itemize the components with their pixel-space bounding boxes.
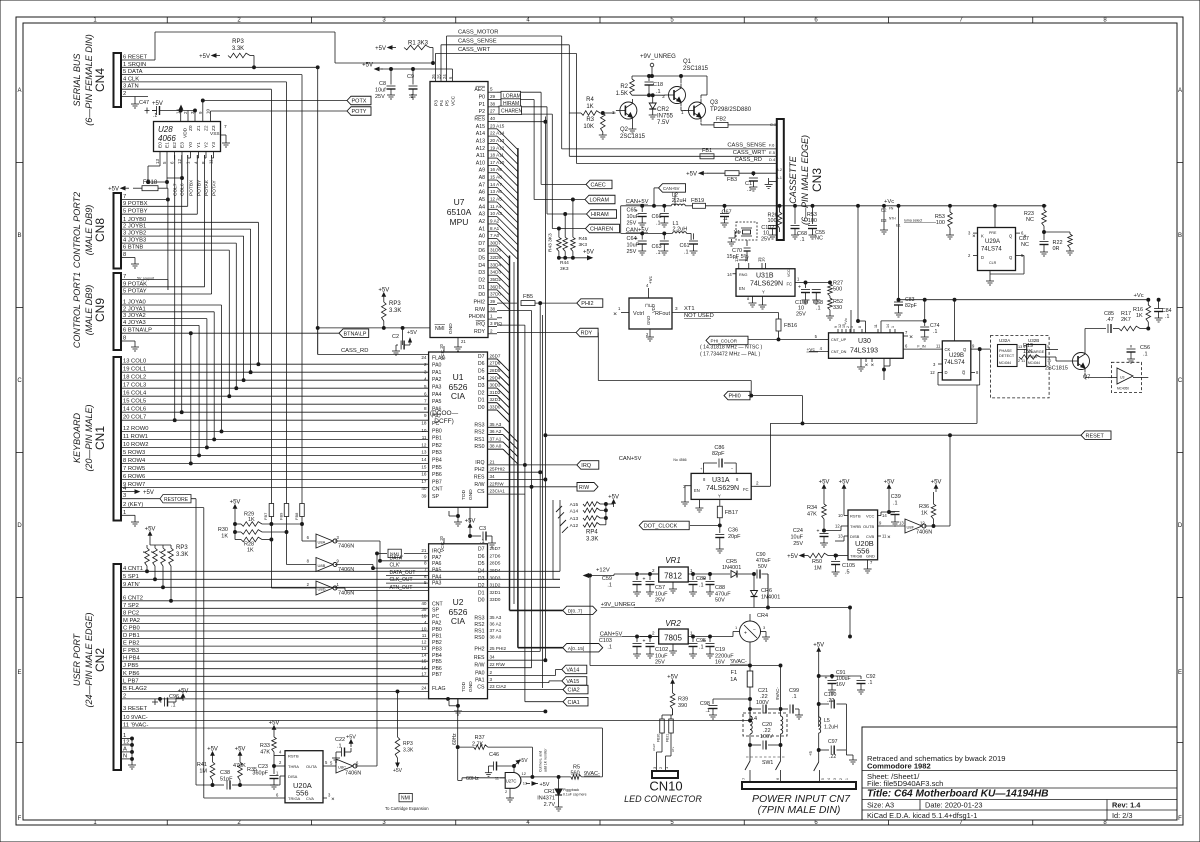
svg-text:FB3: FB3 xyxy=(727,177,737,183)
stair RP4 A15-A12 xyxy=(556,495,619,543)
svg-text:12: 12 xyxy=(744,257,749,262)
capacitor C102 xyxy=(643,637,669,666)
svg-text:1.5K: 1.5K xyxy=(616,91,628,97)
svg-text:5: 5 xyxy=(821,778,825,780)
capacitor C38 51pF xyxy=(213,770,242,790)
svg-text:CIA: CIA xyxy=(451,616,466,626)
svg-text:A8: A8 xyxy=(479,175,485,181)
svg-text:P4: P4 xyxy=(439,100,445,106)
svg-text:10uf: 10uf xyxy=(375,88,386,94)
resistors RP3 3.3K pullup pack xyxy=(142,527,189,603)
svg-text:CR1: CR1 xyxy=(544,789,555,795)
svg-text:31D2: 31D2 xyxy=(490,583,501,588)
svg-text:PB3: PB3 xyxy=(432,450,442,456)
svg-text:CNT: CNT xyxy=(432,602,443,608)
svg-text:UNLIT: UNLIT xyxy=(652,743,656,751)
svg-text:NC: NC xyxy=(815,236,823,242)
svg-text:47K: 47K xyxy=(807,512,817,518)
svg-text:8: 8 xyxy=(424,406,427,411)
svg-text:E0: E0 xyxy=(158,142,164,148)
svg-text:add 1K resistor: add 1K resistor xyxy=(544,748,548,772)
wire base Q1 xyxy=(632,94,665,97)
svg-text:U29A: U29A xyxy=(985,239,1000,245)
svg-text:A[0..15]: A[0..15] xyxy=(568,646,585,652)
svg-text:Vctrl: Vctrl xyxy=(633,311,644,317)
svg-text:C57: C57 xyxy=(655,585,665,591)
svg-text:U1: U1 xyxy=(453,372,464,382)
svg-text:6510A: 6510A xyxy=(447,207,472,217)
svg-text:23CIA1: 23CIA1 xyxy=(490,489,506,494)
svg-text:1K: 1K xyxy=(586,104,593,110)
svg-text:+5V: +5V xyxy=(378,288,389,294)
svg-text:2: 2 xyxy=(652,631,655,636)
svg-text:560: 560 xyxy=(571,771,580,777)
text user port xyxy=(72,612,107,707)
svg-text:CNT_UP: CNT_UP xyxy=(831,338,847,342)
svg-text:+5V: +5V xyxy=(362,63,373,69)
svg-text:23 A15: 23 A15 xyxy=(490,123,505,128)
svg-text:RP3: RP3 xyxy=(232,39,244,45)
svg-text:E: E xyxy=(17,670,21,676)
svg-text:PB2: PB2 xyxy=(432,640,442,646)
svg-text:C18: C18 xyxy=(653,82,663,88)
svg-text:A7: A7 xyxy=(479,182,485,188)
svg-text:CVA: CVA xyxy=(306,796,314,801)
video out R16 C84 xyxy=(1133,300,1151,330)
svg-text:VSS: VSS xyxy=(210,131,220,137)
svg-text:FB20: FB20 xyxy=(657,734,661,742)
svg-text:2: 2 xyxy=(490,328,493,333)
wires FB downs xyxy=(271,517,302,589)
svg-text:IRQ: IRQ xyxy=(475,460,484,466)
svg-text:RFout: RFout xyxy=(655,311,670,317)
capacitor C61 xyxy=(680,233,699,255)
svg-text:FLAG: FLAG xyxy=(432,686,446,692)
wire Q7 collector to rail xyxy=(1085,329,1106,346)
svg-text:U8B: U8B xyxy=(318,563,326,568)
svg-text:RS3: RS3 xyxy=(474,422,484,428)
svg-text:Commodore 1982: Commodore 1982 xyxy=(867,762,931,771)
svg-text:U30: U30 xyxy=(858,338,871,345)
svg-text:D0: D0 xyxy=(478,405,485,411)
svg-text:EN: EN xyxy=(739,286,745,291)
flag DOT_CLOCK xyxy=(639,521,720,530)
capacitor C108 xyxy=(795,283,810,318)
svg-text:CN3: CN3 xyxy=(810,168,824,192)
svg-text:3.3K: 3.3K xyxy=(232,46,244,52)
svg-text:40: 40 xyxy=(421,486,427,491)
svg-text:U8A: U8A xyxy=(318,540,326,545)
svg-text:CLK_OUT: CLK_OUT xyxy=(390,577,413,583)
svg-text:NMI: NMI xyxy=(435,326,445,332)
flag IRQ xyxy=(577,461,599,470)
svg-text:✕: ✕ xyxy=(909,335,913,341)
svg-text:2: 2 xyxy=(424,362,427,367)
svg-text:MC4050: MC4050 xyxy=(1117,387,1129,391)
svg-text:17: 17 xyxy=(421,479,427,484)
transistor Q7 2SC1815 xyxy=(1045,345,1090,381)
svg-text:16 A9: 16 A9 xyxy=(490,167,502,172)
flag PHI_COLOR xyxy=(706,336,820,345)
capacitor C87 NC xyxy=(1019,232,1049,256)
svg-text:CIA1: CIA1 xyxy=(568,700,580,706)
svg-text:FB5: FB5 xyxy=(523,294,533,300)
svg-text:VA14: VA14 xyxy=(566,668,579,674)
svg-text:39: 39 xyxy=(490,299,496,304)
capacitor C96 xyxy=(152,689,188,709)
svg-text:SERIAL BUS: SERIAL BUS xyxy=(72,54,82,107)
capacitor C67 xyxy=(720,206,732,227)
IC U29A 74LS74 xyxy=(968,228,1027,271)
svg-text:2.7V: 2.7V xyxy=(544,802,556,808)
svg-text:CR6: CR6 xyxy=(761,588,772,594)
svg-text:1M: 1M xyxy=(814,566,822,572)
svg-text:PC: PC xyxy=(432,421,439,427)
svg-text:A13: A13 xyxy=(476,138,485,144)
svg-text:D.4: D.4 xyxy=(769,157,776,162)
svg-text:21: 21 xyxy=(461,339,466,344)
wire +Vc rail right xyxy=(897,293,1150,301)
svg-text:PA6: PA6 xyxy=(432,561,442,567)
gate U27C xyxy=(495,771,550,802)
svg-text:15K: 15K xyxy=(1023,349,1033,355)
flag RESET xyxy=(1081,431,1111,440)
svg-text:12 A5: 12 A5 xyxy=(490,197,502,202)
inductor L5 and C100 C97 xyxy=(808,700,857,783)
svg-text:D0: D0 xyxy=(478,292,485,298)
svg-text:LORAM: LORAM xyxy=(590,198,610,204)
transistor Q1 2SC1815 xyxy=(662,76,686,111)
svg-text:+5V: +5V xyxy=(667,675,678,681)
wire CAN+5V rail2 xyxy=(621,228,673,235)
svg-text:FB18: FB18 xyxy=(143,180,158,186)
wire U29B feedback xyxy=(938,348,990,385)
svg-text:R43 3K3: R43 3K3 xyxy=(548,233,554,252)
svg-text:+: + xyxy=(817,529,820,535)
svg-text:C36: C36 xyxy=(728,528,738,534)
svg-text:100V: 100V xyxy=(756,700,769,706)
svg-text:.1: .1 xyxy=(656,221,661,227)
svg-text:12: 12 xyxy=(522,771,527,776)
svg-text:+5V: +5V xyxy=(931,480,942,486)
svg-text:R4: R4 xyxy=(586,97,594,103)
svg-text:34: 34 xyxy=(490,655,496,660)
svg-text:CASSETTE: CASSETTE xyxy=(788,155,798,204)
svg-text:15: 15 xyxy=(421,659,427,664)
svg-text:PA0: PA0 xyxy=(432,363,442,369)
svg-text:25V: 25V xyxy=(796,312,806,318)
svg-text:.1: .1 xyxy=(1143,352,1148,358)
transistor Q2 2SC1815 xyxy=(612,99,646,140)
connector CN2 user port xyxy=(114,564,149,770)
label cut here xyxy=(539,748,548,772)
svg-text:.1: .1 xyxy=(933,329,937,335)
capacitor C103 xyxy=(599,637,642,659)
capacitor C83 82pF xyxy=(894,297,917,317)
svg-text:60Hz: 60Hz xyxy=(452,733,458,745)
capacitor C105 xyxy=(831,556,855,577)
svg-text:F.6: F.6 xyxy=(769,143,775,148)
svg-text:PA3: PA3 xyxy=(432,581,442,587)
svg-text:R/W: R/W xyxy=(474,663,484,669)
svg-text:CASS_WRT': CASS_WRT' xyxy=(733,150,766,156)
diode CR5 xyxy=(700,559,755,578)
svg-text:OUTA: OUTA xyxy=(306,764,317,769)
resistor R36 1K xyxy=(919,492,936,526)
svg-text:Piggyback: Piggyback xyxy=(563,788,579,792)
labels E2 E3 luma xyxy=(880,204,936,234)
svg-text:PH2: PH2 xyxy=(474,467,484,473)
svg-text:KiCad E.D.A. kicad 5.1.4+dfsg: KiCad E.D.A. kicad 5.1.4+dfsg1-1 xyxy=(867,811,977,820)
flag POTX xyxy=(347,96,371,105)
resistor R5 560 xyxy=(532,765,602,780)
svg-text:A14: A14 xyxy=(476,131,485,137)
text control port2 xyxy=(72,192,107,268)
svg-text:Q3: Q3 xyxy=(710,100,719,106)
svg-text:1: 1 xyxy=(845,778,849,780)
wires U31B connections xyxy=(739,256,832,284)
svg-text:11: 11 xyxy=(874,324,878,328)
svg-text:RP3: RP3 xyxy=(176,545,188,551)
svg-text:+5V: +5V xyxy=(540,782,550,788)
svg-text:C61: C61 xyxy=(680,243,690,249)
svg-text:D5: D5 xyxy=(478,256,485,262)
svg-text:23 CIA2: 23 CIA2 xyxy=(490,684,507,689)
svg-text:A4: A4 xyxy=(479,204,485,210)
flag RDY xyxy=(576,328,598,337)
svg-text:E2: E2 xyxy=(172,142,178,148)
svg-text:40: 40 xyxy=(490,116,496,121)
wires U2 bottom gnd xyxy=(449,699,462,715)
svg-text:(7PIN MALE DIN): (7PIN MALE DIN) xyxy=(758,804,841,816)
svg-text:U31A: U31A xyxy=(712,477,730,484)
svg-text:5: 5 xyxy=(1047,345,1049,349)
svg-text:7406N: 7406N xyxy=(338,567,354,573)
flag BTNA\LP xyxy=(339,329,369,338)
svg-text:R33: R33 xyxy=(260,743,270,749)
svg-text:+Vc: +Vc xyxy=(843,318,848,325)
svg-text:RES: RES xyxy=(474,475,485,481)
wires CN2 xyxy=(121,500,751,777)
regulator VR2 7805 xyxy=(640,619,700,655)
svg-text:12: 12 xyxy=(835,524,840,529)
svg-text:10: 10 xyxy=(206,108,211,114)
wires U31A xyxy=(681,385,977,512)
svg-text:P2: P2 xyxy=(479,109,485,115)
IC U1 6526 CIA xyxy=(421,343,505,507)
svg-text:CLR: CLR xyxy=(989,261,997,265)
IC U31A 74LS629N xyxy=(683,473,759,499)
svg-text:PHI2: PHI2 xyxy=(473,299,485,305)
svg-text:3.3K: 3.3K xyxy=(403,748,414,754)
text control port1 xyxy=(72,272,107,348)
capacitor C19 xyxy=(703,635,735,665)
svg-text:.1: .1 xyxy=(1165,314,1169,320)
svg-text:2: 2 xyxy=(839,778,843,780)
resistor R19 15K xyxy=(1019,343,1069,361)
wires NMI rows xyxy=(373,549,429,591)
svg-text:6: 6 xyxy=(424,574,427,579)
svg-text:CONTROL PORT1: CONTROL PORT1 xyxy=(72,272,82,348)
svg-text:MC4044: MC4044 xyxy=(1028,361,1040,365)
capacitor C18 xyxy=(645,75,664,97)
svg-text:+5V: +5V xyxy=(407,330,417,336)
svg-text:.1: .1 xyxy=(792,694,797,700)
svg-text:C: C xyxy=(17,378,22,384)
svg-text:CIA2: CIA2 xyxy=(568,688,580,694)
svg-text:FN: FN xyxy=(889,207,894,211)
svg-text:25V: 25V xyxy=(655,598,665,604)
svg-text:C24: C24 xyxy=(793,528,803,534)
svg-text:PB6: PB6 xyxy=(432,472,442,478)
svg-text:82pF: 82pF xyxy=(905,303,917,309)
IC U7 6510A MPU xyxy=(430,74,488,338)
labels LORAM HIRAM CHAREN at U7 xyxy=(499,91,523,114)
svg-text:PA3: PA3 xyxy=(432,385,442,391)
svg-text:P1: P1 xyxy=(479,102,485,108)
svg-text:D7: D7 xyxy=(478,547,485,553)
svg-text:RNG: RNG xyxy=(739,273,747,277)
resistor RP3 3.3K top xyxy=(199,39,254,67)
svg-text:2SC1815: 2SC1815 xyxy=(683,66,709,72)
connector CN1 keyboard xyxy=(114,357,149,521)
svg-text:D6: D6 xyxy=(478,361,485,367)
svg-text:C22: C22 xyxy=(335,737,345,743)
svg-text:25V: 25V xyxy=(761,237,771,243)
svg-text:RS0: RS0 xyxy=(474,444,484,450)
svg-text:.1: .1 xyxy=(747,187,752,193)
svg-text:C38: C38 xyxy=(220,770,230,776)
svg-text:C47: C47 xyxy=(139,100,149,106)
svg-text:7.5V: 7.5V xyxy=(657,120,669,126)
svg-text:POTY: POTY xyxy=(352,109,367,115)
power +5V row above U20B xyxy=(819,480,942,493)
svg-text:7406N: 7406N xyxy=(338,591,354,597)
svg-text:R39: R39 xyxy=(678,697,688,703)
svg-text:+5V: +5V xyxy=(178,689,189,695)
flag CIA2 xyxy=(563,685,588,694)
svg-text:MPU: MPU xyxy=(450,217,469,227)
svg-text:CASS_WRT: CASS_WRT xyxy=(458,47,491,53)
svg-text:Z3: Z3 xyxy=(211,125,217,131)
resistor R41 1M xyxy=(197,747,218,787)
inverter U8B xyxy=(287,558,375,574)
diode CR2 IN755 xyxy=(649,95,674,126)
svg-text:Y: Y xyxy=(762,290,765,295)
svg-text:2: 2 xyxy=(756,481,759,486)
svg-text:NC: NC xyxy=(1021,242,1029,248)
svg-text:3.3K: 3.3K xyxy=(586,536,598,542)
svg-text:PB3: PB3 xyxy=(432,646,442,652)
svg-text:36 A2: 36 A2 xyxy=(490,622,502,627)
svg-text:PA2: PA2 xyxy=(432,377,442,383)
svg-text:Z2: Z2 xyxy=(204,125,210,131)
svg-text:PC: PC xyxy=(432,614,439,620)
svg-text:.1: .1 xyxy=(868,680,872,686)
svg-text:FB8: FB8 xyxy=(294,512,299,520)
svg-text:E.5: E.5 xyxy=(769,150,776,155)
svg-text:CK: CK xyxy=(945,347,951,352)
svg-text:PA7: PA7 xyxy=(432,555,442,561)
svg-text:Id: 2/3: Id: 2/3 xyxy=(1112,811,1133,820)
resistor R27 500 xyxy=(828,281,843,299)
svg-text:PA4: PA4 xyxy=(432,392,442,398)
svg-text:74LS74: 74LS74 xyxy=(944,360,965,366)
svg-text:TRIGB: TRIGB xyxy=(850,554,863,559)
svg-text:A.1: A.1 xyxy=(776,175,783,180)
svg-text:D1: D1 xyxy=(478,398,485,404)
svg-text:+5V: +5V xyxy=(346,735,356,741)
svg-text:1K: 1K xyxy=(1136,313,1143,319)
wires keyboard restore to 556 xyxy=(196,784,213,786)
svg-text:CN1: CN1 xyxy=(93,426,107,450)
svg-text:7805: 7805 xyxy=(664,634,682,643)
wire RESET from CN4 xyxy=(148,32,434,64)
svg-text:.1: .1 xyxy=(656,250,661,256)
svg-text:Y0: Y0 xyxy=(188,142,194,148)
svg-text:TOD: TOD xyxy=(461,489,467,500)
label CASS_RD left xyxy=(318,67,429,354)
svg-text:A10: A10 xyxy=(476,160,485,166)
svg-text:FC: FC xyxy=(743,487,749,492)
svg-text:BTNA\LP: BTNA\LP xyxy=(344,331,367,337)
svg-text:R/W: R/W xyxy=(475,307,485,313)
svg-text:D4: D4 xyxy=(478,376,485,382)
svg-text:VA15: VA15 xyxy=(566,679,579,685)
capacitor C63 xyxy=(652,233,669,256)
svg-text:FB7: FB7 xyxy=(263,512,268,520)
svg-text:11: 11 xyxy=(422,633,427,638)
svg-text:Q2: Q2 xyxy=(620,127,629,133)
svg-text:NMI: NMI xyxy=(401,796,410,802)
svg-text:PRE: PRE xyxy=(989,231,997,235)
cassette signal wires xyxy=(562,36,777,163)
svg-text:24: 24 xyxy=(421,686,427,691)
svg-text:3.3K: 3.3K xyxy=(176,552,188,558)
label NMI bottom xyxy=(385,793,429,811)
svg-text:25V: 25V xyxy=(375,94,385,100)
svg-text:12: 12 xyxy=(421,442,427,447)
svg-text:39: 39 xyxy=(421,607,427,612)
svg-text:−: − xyxy=(753,627,756,633)
svg-text:35 A3: 35 A3 xyxy=(490,422,502,427)
svg-text:C97: C97 xyxy=(828,739,838,745)
svg-text:A: A xyxy=(1178,88,1182,94)
svg-text:✕: ✕ xyxy=(865,363,869,368)
svg-text:100: 100 xyxy=(808,218,817,224)
capacitor C55 xyxy=(808,204,825,241)
svg-text:13: 13 xyxy=(421,646,427,651)
svg-text:PB7: PB7 xyxy=(432,479,442,485)
svg-text:3: 3 xyxy=(490,677,493,682)
IC U30 74LS193 xyxy=(807,310,941,380)
svg-text:CAN+5V: CAN+5V xyxy=(619,456,642,462)
svg-text:2SC1815: 2SC1815 xyxy=(1045,366,1068,372)
svg-text:C86: C86 xyxy=(714,445,724,451)
svg-text:4: 4 xyxy=(424,377,427,382)
svg-text:PA4: PA4 xyxy=(432,574,442,580)
svg-text:D: D xyxy=(17,523,22,529)
svg-text:1M: 1M xyxy=(199,769,207,775)
svg-text:TOD: TOD xyxy=(461,681,467,692)
svg-text:27: 27 xyxy=(490,109,496,114)
svg-text:470K: 470K xyxy=(233,763,246,769)
svg-text:GND: GND xyxy=(468,681,474,692)
capacitor C66 xyxy=(652,206,669,227)
flag D bus xyxy=(563,606,597,614)
svg-text:100V: 100V xyxy=(760,734,773,740)
inductor L2 xyxy=(671,193,686,206)
